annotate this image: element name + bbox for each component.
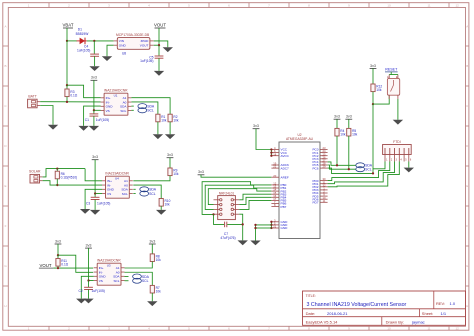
svg-text:3v3: 3v3	[253, 124, 259, 128]
wire 3v3 to U4 VS	[95, 160, 102, 194]
junction R4 SDA	[336, 164, 338, 166]
svg-text:3v3: 3v3	[346, 115, 352, 119]
svg-text:BATT: BATT	[28, 95, 36, 99]
ground button	[393, 120, 403, 125]
wire VBAT rail down to R3	[66, 41, 68, 85]
ground C7	[238, 240, 248, 245]
wire R7 to ground	[151, 293, 153, 301]
junction GND 1	[270, 221, 272, 223]
capacitor C3 1uF(105)	[91, 196, 100, 198]
wire PB0 wrap to module	[202, 182, 271, 215]
svg-text:11: 11	[323, 199, 326, 203]
wire C2 to ground	[88, 290, 90, 299]
svg-text:12: 12	[456, 327, 460, 331]
ground U1 GND	[78, 126, 88, 131]
ground C3	[90, 210, 100, 215]
button S1 reset	[387, 78, 399, 95]
svg-text:Sheet:: Sheet:	[422, 311, 434, 316]
wire U3 GND to ground	[81, 276, 93, 298]
svg-text:VS: VS	[106, 109, 110, 113]
capacitor C4 1uF(105)	[90, 53, 99, 55]
resistor R6 0.1(R510)	[56, 169, 58, 172]
wire reset net down to PC6	[372, 104, 374, 173]
svg-text:REV:: REV:	[436, 301, 445, 306]
wire GND bus to ground	[256, 225, 272, 241]
svg-text:SCL: SCL	[142, 279, 149, 283]
svg-text:F: F	[5, 224, 7, 228]
wire U3 SCL to flag	[125, 280, 129, 282]
svg-text:22: 22	[273, 165, 276, 169]
svg-text:3v3: 3v3	[91, 76, 97, 80]
junction VCC 1	[270, 148, 272, 150]
svg-text:Drawn By:: Drawn By:	[386, 320, 404, 325]
wire U3 A0 to R7	[125, 272, 153, 285]
resistor R2 10k	[168, 114, 172, 122]
svg-text:C2: C2	[79, 289, 83, 293]
svg-text:20: 20	[273, 174, 276, 178]
svg-text:B: B	[466, 64, 468, 68]
junction U3 VS C2	[87, 279, 89, 281]
svg-text:3v3: 3v3	[370, 64, 376, 68]
wire FTDI TX to PD1	[328, 162, 395, 184]
svg-text:F: F	[466, 224, 468, 228]
svg-text:10k: 10k	[165, 203, 171, 207]
wire VCC junction to C7	[214, 214, 225, 224]
wire 3v3 to R11 junction	[57, 244, 59, 255]
svg-text:SCL: SCL	[365, 168, 372, 172]
wire C1 stem	[93, 110, 95, 114]
regulator U8 MCP1700A-3302E-DB	[117, 38, 150, 50]
svg-text:GND: GND	[119, 44, 127, 48]
svg-text:3 Channel INA219 Voltage/Curre: 3 Channel INA219 Voltage/Current Sensor	[307, 302, 407, 308]
module P1 NRF24L01	[218, 196, 236, 220]
wire U4 A0 to R10	[133, 185, 161, 198]
wire C2 stem	[88, 281, 90, 288]
junction R11 top	[57, 254, 59, 256]
svg-text:1uF(105): 1uF(105)	[77, 48, 90, 52]
ground 3PAD	[163, 47, 173, 52]
resistor R10 10k	[159, 199, 163, 207]
svg-text:A: A	[4, 25, 6, 29]
junction C4 tap	[93, 40, 95, 42]
svg-text:U1: U1	[114, 94, 118, 98]
ground FTDI	[404, 168, 414, 173]
svg-text:18: 18	[273, 152, 276, 156]
svg-text:3v3: 3v3	[198, 170, 204, 174]
wire junction to button	[373, 95, 389, 104]
svg-text:INA219AIDCNR: INA219AIDCNR	[104, 88, 128, 92]
svg-text:E: E	[466, 184, 468, 188]
wire R12 to junction	[372, 92, 374, 105]
IC U3 INA219AIDCNR	[97, 263, 121, 285]
wire AREF to 3v3	[201, 175, 271, 177]
wire FTDI RX to PD0	[328, 162, 390, 181]
wire 3v3 to R5	[348, 119, 350, 128]
svg-text:3v3: 3v3	[86, 244, 92, 248]
svg-text:3v3: 3v3	[55, 239, 61, 243]
IC U1 INA219AIDCNR	[104, 93, 128, 115]
wire PB4 to module pin	[239, 197, 271, 204]
svg-text:INA219AIDCNR: INA219AIDCNR	[97, 258, 121, 262]
wire U4 GND to ground	[85, 189, 102, 209]
diode D1 B5819W	[77, 40, 87, 42]
wire R8 to U3 A1	[125, 262, 153, 269]
wire U4 SCL to flag	[133, 193, 135, 195]
svg-text:29: 29	[323, 165, 326, 169]
svg-text:GND: GND	[281, 226, 289, 230]
junction AVCC	[270, 155, 272, 157]
svg-text:NRF24L01: NRF24L01	[219, 191, 235, 195]
title block	[303, 291, 466, 325]
ground C2	[83, 299, 93, 304]
wire button to ground	[397, 99, 399, 120]
svg-text:TITLE:: TITLE:	[306, 294, 316, 298]
wire R2 to ground	[169, 122, 171, 135]
wire PC6 to reset net	[328, 168, 373, 173]
svg-text:11: 11	[427, 327, 430, 331]
svg-text:10k: 10k	[161, 118, 167, 122]
resistor R8 10k	[150, 254, 154, 262]
resistor R7 10k	[150, 285, 154, 293]
junction R3 bottom	[66, 101, 68, 103]
IC U2 ATMEGA328P-AU	[279, 142, 320, 239]
junction VCC 2	[270, 151, 272, 153]
wire C4 to ground	[94, 56, 96, 66]
svg-text:ADC7: ADC7	[281, 166, 290, 170]
wire module GND to C7	[239, 214, 242, 224]
svg-text:0.1Ω(R510): 0.1Ω(R510)	[61, 176, 78, 180]
wire U1 A1 to R2	[131, 98, 170, 115]
net flag SCL U4	[140, 191, 149, 196]
svg-text:E: E	[4, 184, 6, 188]
svg-text:D1: D1	[78, 27, 82, 31]
wire 3v3 to R8	[151, 244, 153, 254]
svg-text:C3: C3	[86, 201, 90, 205]
wire BATT+ to IN-	[40, 101, 100, 103]
svg-text:SCL: SCL	[122, 192, 128, 196]
svg-text:B5819W: B5819W	[76, 32, 90, 36]
wire PB5 to module pin	[239, 200, 271, 209]
wire regulator VOUT pin	[154, 44, 159, 46]
wire R3 top to IN+ jog	[67, 85, 101, 98]
ground R10	[156, 210, 166, 215]
svg-text:3v3: 3v3	[92, 155, 98, 159]
wire R11 bottom	[57, 266, 59, 268]
svg-text:1/1: 1/1	[441, 311, 447, 316]
resistor R4 10k	[335, 128, 339, 136]
capacitor C2 1uF(105)	[84, 286, 93, 288]
wire C1 to ground	[93, 116, 95, 126]
ground U3 GND	[76, 299, 86, 304]
wire C5 stem	[158, 45, 160, 56]
junction module VCC	[212, 213, 214, 215]
svg-text:10k: 10k	[340, 133, 346, 137]
net flag SDA U3	[133, 274, 142, 279]
wire 3v3 to R9	[169, 158, 171, 168]
svg-text:10k: 10k	[173, 172, 179, 176]
svg-text:FTDI: FTDI	[393, 140, 401, 144]
wire C3 stem	[94, 194, 96, 198]
junction R6 top	[56, 167, 58, 169]
wire VBAT down	[66, 28, 68, 41]
svg-text:AREF: AREF	[281, 175, 289, 179]
wire 3PAD to ground	[154, 41, 168, 47]
wire FTDI GND	[408, 162, 410, 168]
wire PC5 SCL	[328, 165, 356, 169]
svg-text:INA219AIDCNR: INA219AIDCNR	[105, 171, 129, 175]
svg-text:EasyEDA V5.5.14: EasyEDA V5.5.14	[306, 320, 339, 325]
ground BATT	[48, 125, 58, 130]
junction R11 bottom	[57, 267, 59, 269]
ground C1	[89, 126, 99, 131]
wire regulator GND to ground	[107, 45, 114, 56]
svg-text:Date:: Date:	[306, 311, 316, 316]
svg-text:1uF(105): 1uF(105)	[140, 59, 153, 63]
svg-text:PD7: PD7	[312, 201, 318, 205]
resistor R11 0.1	[57, 255, 59, 258]
wire U1 A0 to R1	[131, 102, 158, 114]
junction reset DTR	[372, 172, 374, 174]
wire C7 to ground junction	[227, 224, 243, 240]
wire 3v3 to U3 VS	[89, 248, 94, 280]
resistor R9 10k	[168, 168, 172, 176]
junction R6 bottom	[56, 184, 58, 186]
net flag SCL U3	[133, 278, 142, 283]
svg-text:C1: C1	[85, 118, 89, 122]
resistor R12 10k	[371, 84, 375, 92]
wire FTDI pin4 to PD2	[328, 162, 400, 187]
net flag SDA U1	[138, 104, 147, 109]
svg-text:AVCC: AVCC	[281, 154, 290, 158]
svg-text:MCP1700A-3302E-DB: MCP1700A-3302E-DB	[116, 33, 150, 37]
svg-text:47uF(476): 47uF(476)	[220, 236, 235, 240]
wire VOUT to IN+	[53, 267, 93, 269]
junction VS C1	[93, 109, 95, 111]
junction R3 top	[66, 84, 68, 86]
junction GND 2	[270, 224, 272, 226]
svg-text:2018-06-21: 2018-06-21	[327, 311, 348, 316]
wire FTDI DTR to reset	[373, 162, 385, 169]
svg-text:VOUT: VOUT	[154, 22, 166, 27]
svg-text:ATMEGA328P-AU: ATMEGA328P-AU	[286, 137, 314, 141]
ground R7	[147, 301, 157, 306]
wire R3 bottom	[66, 97, 68, 102]
wire BATT- to ground	[40, 106, 53, 125]
wire 3v3 to VS	[94, 80, 101, 110]
svg-text:H: H	[4, 304, 6, 308]
junction R5 SCL	[348, 168, 350, 170]
wire 3v3 to R4	[336, 119, 338, 128]
wire U1 SCL to flag	[131, 109, 133, 111]
ground MCU	[250, 241, 260, 246]
net flag SCL MCU	[356, 167, 365, 172]
net flag SDA MCU	[356, 163, 365, 168]
svg-text:VS: VS	[107, 192, 111, 196]
svg-text:3v3: 3v3	[334, 115, 340, 119]
svg-text:SCL: SCL	[113, 279, 119, 283]
svg-text:3v3: 3v3	[167, 153, 173, 157]
svg-text:RESET: RESET	[385, 68, 398, 72]
wire R5 to SCL line	[348, 136, 350, 169]
ground C4	[89, 66, 99, 71]
junction VOUT C5	[158, 44, 160, 46]
wire PB3 to module pin	[239, 194, 271, 200]
svg-text:10: 10	[387, 3, 391, 7]
ground R2	[165, 134, 175, 139]
junction GND 3	[270, 227, 272, 229]
net flag SDA U4	[140, 187, 149, 192]
ground C5	[154, 71, 164, 76]
wire R9 to U4 A1	[133, 176, 170, 181]
svg-text:0.1Ω: 0.1Ω	[61, 263, 68, 267]
wire PC4 SDA	[328, 162, 356, 165]
wire C4 stem	[93, 41, 95, 54]
svg-text:21: 21	[273, 225, 276, 229]
svg-text:VOUT: VOUT	[40, 263, 52, 268]
svg-text:SOLAR: SOLAR	[29, 169, 41, 173]
wire rail to IN+	[85, 169, 102, 181]
wire U3 SDA to flag	[125, 276, 129, 278]
junction reset	[372, 103, 374, 105]
svg-text:1uF(105): 1uF(105)	[96, 118, 109, 122]
svg-text:12: 12	[456, 3, 460, 7]
resistor R1 10k	[156, 114, 160, 122]
svg-text:10: 10	[387, 327, 391, 331]
wire 3v3 to R12	[372, 68, 374, 84]
svg-text:U3: U3	[107, 264, 111, 268]
wire C3 to ground	[94, 200, 96, 210]
svg-text:1.0: 1.0	[450, 301, 456, 306]
junction C7 ground	[242, 223, 244, 225]
wire VCC pin bus	[270, 150, 272, 156]
svg-text:10k: 10k	[156, 290, 162, 294]
svg-text:U8: U8	[122, 51, 126, 55]
wire U4 SDA to flag	[133, 188, 135, 190]
capacitor C7 47uF(476)	[224, 222, 226, 228]
wire D1 to VIN	[87, 40, 114, 42]
wire MCU GND pins	[270, 222, 272, 228]
capacitor C1 1uF(105)	[90, 113, 99, 115]
svg-text:10k: 10k	[352, 133, 358, 137]
wire SOLAR- join	[43, 181, 58, 185]
junction U4 VS C3	[94, 192, 96, 194]
junction VBAT	[66, 40, 68, 42]
wire PB1 wrap to module	[205, 185, 271, 209]
svg-text:U4: U4	[115, 177, 119, 181]
junction GND bus	[254, 224, 256, 226]
svg-text:VBAT: VBAT	[63, 22, 74, 27]
ground R1	[153, 134, 163, 139]
svg-text:1uF(105): 1uF(105)	[97, 201, 110, 205]
svg-text:SCL: SCL	[120, 109, 126, 113]
wire SOLAR+ up to R6 top rail	[43, 169, 86, 177]
wire R10 to ground	[160, 206, 162, 210]
wire VBAT to D1	[67, 40, 77, 42]
svg-text:VOUT: VOUT	[140, 44, 149, 48]
svg-text:3v3: 3v3	[149, 239, 155, 243]
svg-text:10k: 10k	[173, 118, 179, 122]
wire C5 to ground	[158, 58, 160, 71]
resistor R3 0.1	[66, 85, 68, 89]
wire VOUT flag down	[158, 28, 160, 45]
svg-text:A: A	[466, 25, 468, 29]
IC U4 INA219AIDCNR	[106, 176, 130, 198]
svg-text:jaymac: jaymac	[411, 320, 425, 325]
svg-text:1uF(105): 1uF(105)	[92, 289, 105, 293]
wire 3v3 to VCC pins	[256, 129, 271, 150]
svg-text:VS: VS	[99, 279, 103, 283]
svg-text:SCL: SCL	[149, 192, 156, 196]
svg-text:10k: 10k	[376, 88, 382, 92]
svg-text:B: B	[4, 64, 6, 68]
ground U4 GND	[80, 209, 90, 214]
wire R4 to SDA line	[336, 136, 338, 165]
wire R1 to ground	[157, 122, 159, 135]
ground regulator	[102, 56, 112, 61]
svg-text:SCL: SCL	[147, 109, 154, 113]
svg-text:PB7: PB7	[281, 205, 287, 209]
wire R6 bottom to IN-	[57, 179, 102, 185]
svg-text:11: 11	[427, 3, 430, 7]
svg-text:0.1Ω: 0.1Ω	[70, 93, 77, 97]
svg-text:PC6: PC6	[312, 166, 318, 170]
capacitor C5 1uF(105)	[155, 55, 164, 57]
resistor R5 10k	[347, 128, 351, 136]
wire detour to IN-	[58, 255, 93, 272]
wire U1 GND to ground	[84, 106, 101, 126]
svg-text:H: H	[466, 304, 468, 308]
svg-text:10k: 10k	[156, 258, 162, 262]
wire PB2 wrap to module	[208, 189, 271, 205]
net flag SCL U1	[138, 108, 147, 113]
wire U1 SDA to flag	[131, 105, 133, 107]
